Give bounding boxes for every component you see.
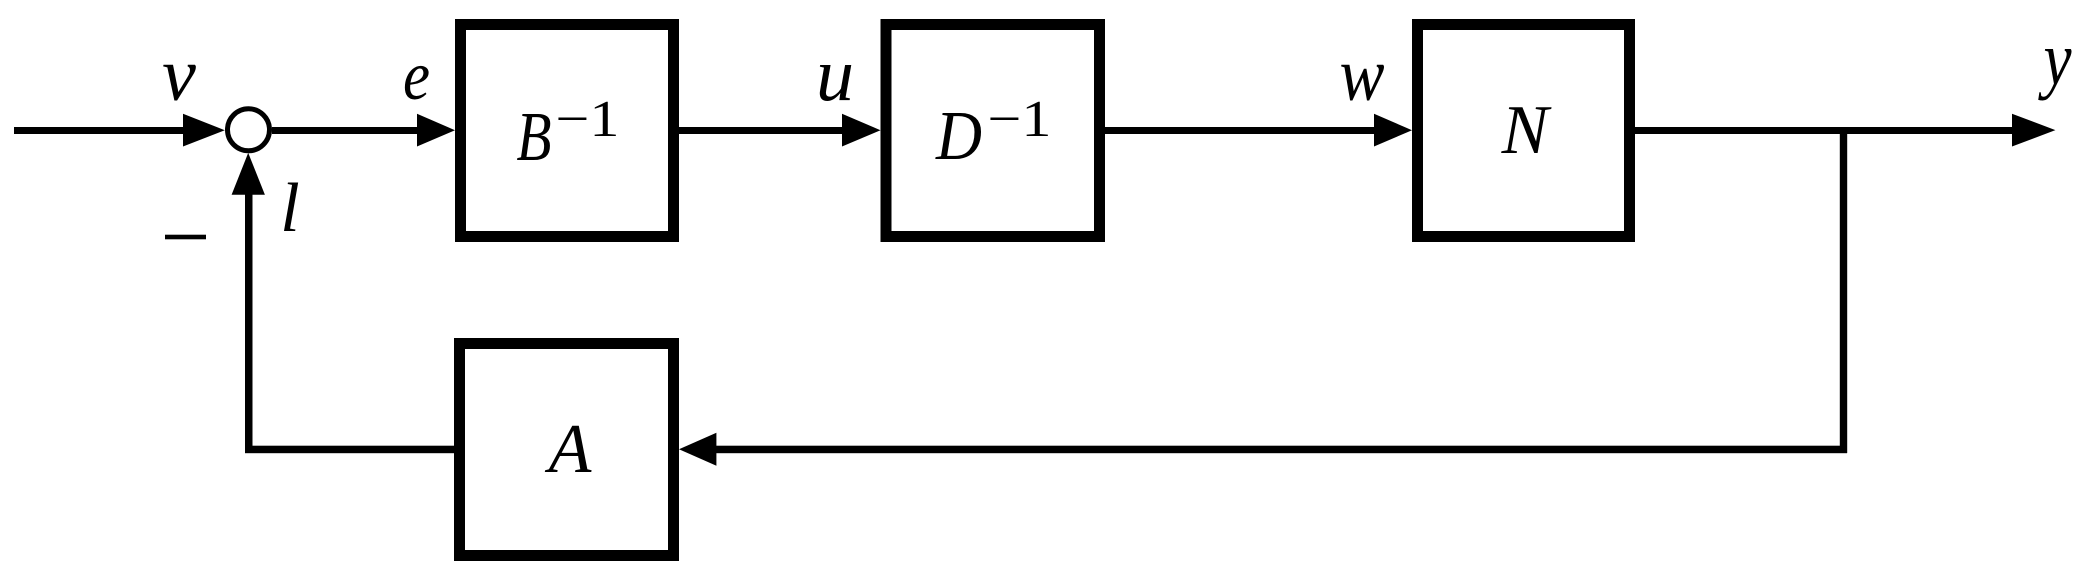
arrowhead into D	[842, 114, 881, 147]
svg-text:−1: −1	[556, 91, 620, 148]
wire e	[272, 127, 418, 134]
wire y	[1635, 127, 2015, 134]
block B	[461, 25, 674, 237]
arrowhead into summing junction	[183, 114, 225, 147]
svg-text:B: B	[517, 99, 552, 176]
svg-text:D: D	[935, 98, 982, 175]
arrowhead into summing junction from below	[232, 153, 265, 195]
arrowhead into B	[417, 114, 455, 147]
svg-text:A: A	[545, 411, 592, 488]
label minus	[165, 235, 206, 240]
node tap junction	[1840, 130, 1847, 453]
summing junction	[228, 109, 270, 151]
wire w	[1105, 127, 1377, 134]
block A	[460, 344, 674, 556]
svg-text:y: y	[2038, 17, 2072, 101]
wire feedback right	[713, 446, 1847, 454]
wire input v	[14, 127, 186, 134]
svg-text:l: l	[280, 170, 299, 247]
svg-text:u: u	[816, 33, 854, 117]
arrowhead into A	[679, 433, 716, 466]
svg-text:e: e	[403, 38, 430, 115]
svg-text:v: v	[162, 33, 196, 117]
wire u	[679, 127, 845, 134]
svg-text:N: N	[1501, 92, 1552, 169]
svg-text:−1: −1	[988, 91, 1052, 148]
block D	[886, 25, 1100, 237]
block N	[1418, 25, 1630, 237]
arrowhead into N	[1374, 114, 1412, 147]
svg-text:w: w	[1340, 33, 1385, 117]
wire feedback up	[245, 192, 253, 453]
output arrowhead	[2012, 114, 2055, 147]
wire feedback left	[245, 446, 454, 454]
